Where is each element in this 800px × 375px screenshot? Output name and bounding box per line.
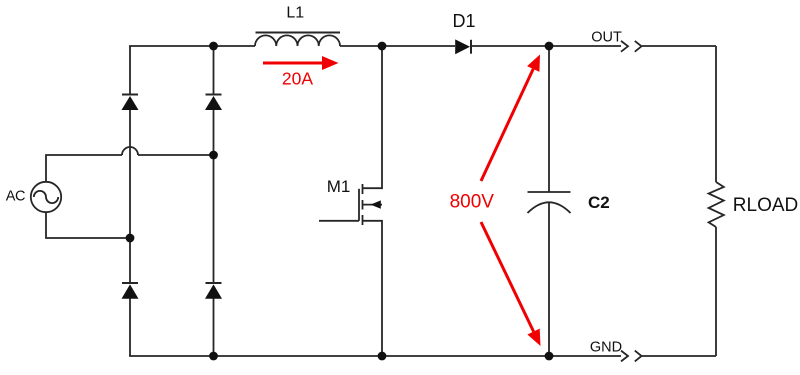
wire right rail upper [715,46,717,182]
node GND / capacitor bottom [545,352,554,361]
svg-text:800V: 800V [450,192,495,213]
20A current arrow [263,56,339,70]
inductor L1 [255,33,340,47]
wire right rail lower [715,227,717,356]
wire AC top lead [46,155,122,182]
svg-text:OUT: OUT [591,29,622,45]
transistor M1 [319,184,382,225]
wire bridge leg2 upper [213,46,215,95]
GND port chevrons [621,351,642,362]
diode bridge upper-right [205,95,222,111]
wire MOSFET source [363,221,383,356]
svg-text:GND: GND [590,339,622,355]
svg-text:D1: D1 [452,11,475,31]
wire bridge leg1 upper [129,46,131,95]
wire crossover hop [122,147,138,155]
wire bridge leg2 middle [213,110,215,283]
node bottom of leg2 [209,352,218,361]
wire bridge leg1 middle [129,110,131,283]
svg-text:RLOAD: RLOAD [733,195,798,216]
wire bridge leg2 lower [213,298,215,356]
diode bridge upper-left [122,95,139,111]
svg-text:20A: 20A [282,69,313,89]
diode bridge lower-right [205,283,222,299]
node top of leg2 [209,42,218,51]
wire top rail right of D1 [472,45,621,47]
node AC to leg1 [126,234,135,243]
svg-text:L1: L1 [286,5,304,22]
OUT port chevrons [621,41,642,52]
wire top rail after OUT port [642,45,716,47]
capacitor C2 [528,192,571,213]
resistor RLOAD [709,182,724,227]
wire AC bottom lead [46,212,130,238]
wire top rail mid [340,45,455,47]
wire capacitor bottom [548,202,550,356]
wire bottom rail [129,355,621,357]
svg-text:C2: C2 [588,193,610,212]
AC source V1 [31,182,61,212]
diode D1 [455,39,471,54]
wire capacitor top [548,46,550,192]
wire AC top to leg2 [138,154,214,156]
node OUT / capacitor top [545,42,554,51]
wire bottom rail after GND port [642,355,716,357]
800V annotation arrows [481,55,541,347]
svg-text:AC: AC [6,189,25,205]
node top of MOSFET branch [378,42,387,51]
node AC to leg2 [209,151,218,160]
svg-text:M1: M1 [327,177,351,196]
diode bridge lower-left [122,283,139,299]
wire top rail left [129,45,255,47]
wire bridge leg1 lower [129,298,131,356]
wire MOSFET drain [363,46,383,188]
node bottom of MOSFET branch [378,352,387,361]
